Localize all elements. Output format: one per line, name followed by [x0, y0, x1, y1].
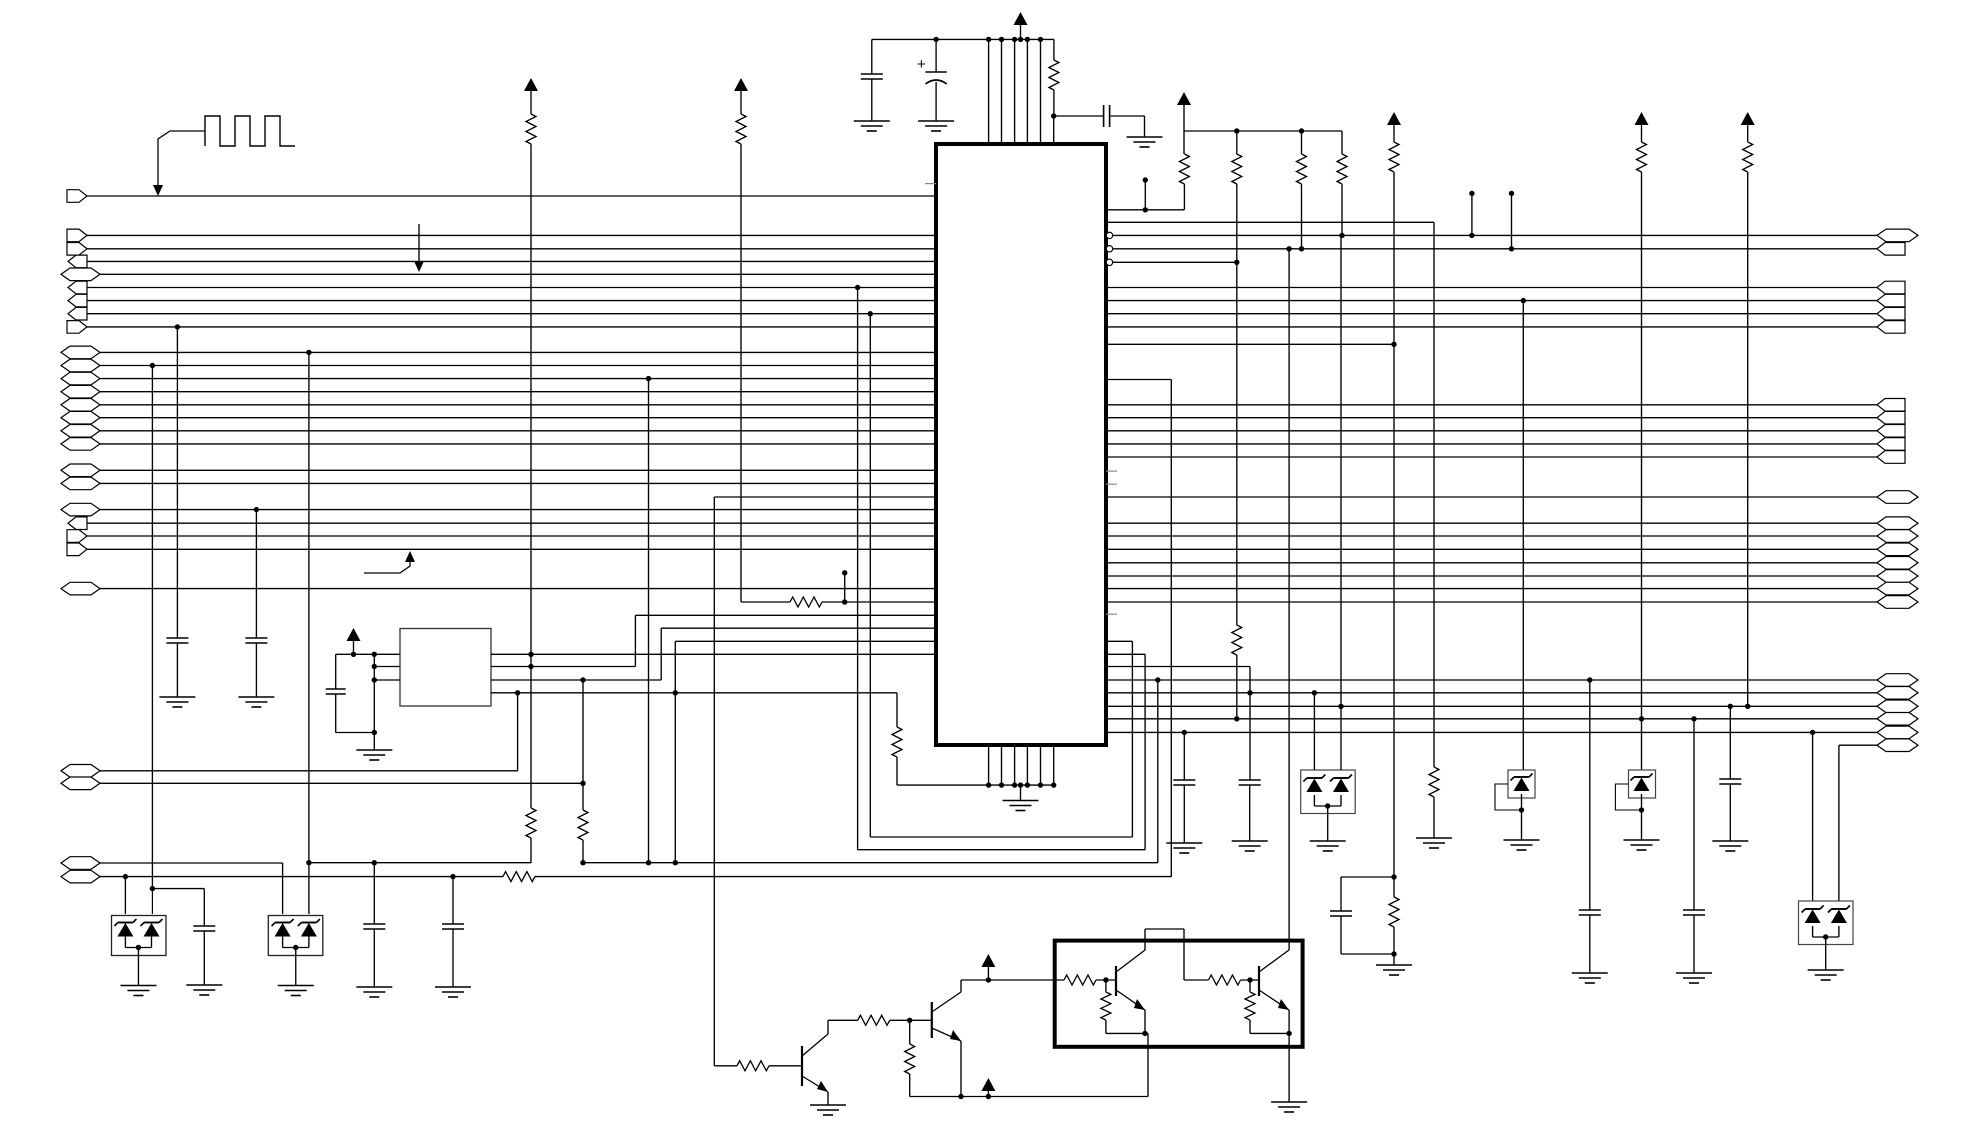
VCC power arrow top center: [1014, 12, 1028, 25]
wire row y470: [100, 469, 936, 471]
TVS diode array D2 bottom-left-2: [268, 916, 323, 956]
wire drop x517 to row 771: [517, 693, 519, 771]
RC pair x1341/x1394 lower: [1391, 874, 1396, 879]
connector P-CLK input: [67, 190, 87, 203]
wire U2 pin1 left VCC: [336, 653, 400, 655]
resistor Q1 collector to node: [858, 1015, 890, 1025]
transistor Q1: [801, 1046, 803, 1086]
ground x1250: [1232, 840, 1268, 842]
wire row 667 to corner x1250: [1106, 666, 1250, 668]
wire drop x1694 from row 719: [1691, 716, 1696, 721]
connector right hex 236: [1877, 229, 1918, 242]
capacitor x1694: [1683, 909, 1705, 911]
wire bus row y248: [87, 248, 936, 250]
resistor x1394: [1389, 142, 1399, 172]
wire row E 588: [100, 588, 936, 590]
ground D6: [1808, 969, 1844, 971]
wire U2 pin2 right with jog to IC row 615: [491, 666, 635, 668]
wire row y523: [87, 522, 936, 524]
connector left hex 863: [61, 857, 100, 870]
ground x1730: [1712, 840, 1748, 842]
wire rows 287-327 right side: [1106, 287, 1877, 289]
connectors right rows 404-457: [1877, 399, 1905, 412]
connectors right hex rows 680-745: [1877, 674, 1918, 687]
wire Q4 base feed: [1184, 979, 1209, 981]
wire rows 404-457 right side: [1106, 404, 1877, 406]
wire rows 523-602 right side: [1106, 522, 1877, 524]
net stub pair x1511: [1509, 191, 1514, 196]
connectors right hex rows 523-602: [1877, 517, 1918, 530]
capacitor at x256: [245, 637, 267, 639]
wire x1289 long vertical to transistor box: [1288, 249, 1290, 943]
connector left hex 771: [61, 765, 100, 778]
resistor Q4 base-emitter: [1247, 977, 1252, 982]
sub-IC U2 box: [400, 629, 491, 707]
connector left y300: [68, 294, 87, 307]
resistor pullup x531: [526, 114, 536, 144]
wire S2 row 863: [583, 862, 1158, 864]
capacitor U2 bypass: [335, 654, 337, 689]
wire long vertical x714 to transistor Q1: [713, 497, 715, 1066]
VCC rail right with arrow: [1177, 92, 1191, 105]
wire IC pin row 344 to x1394: [1106, 343, 1394, 345]
ground x1394: [1376, 964, 1412, 966]
TVS single D5 x1641: [1641, 719, 1643, 770]
wire x1314 up to row 693: [1312, 690, 1317, 695]
wire U-return from row 313 via bottom: [868, 311, 873, 316]
ground x177: [159, 696, 195, 698]
wire U-return from row 287 via bottom: [855, 285, 860, 290]
resistor Q3 base-emitter: [1103, 977, 1108, 982]
wire row G1 863: [100, 862, 283, 864]
wire bus row y261: [87, 260, 936, 262]
resistor x1434: [1429, 767, 1439, 797]
transistor Q3: [1115, 966, 1117, 996]
wire Q2 emitter rail: [960, 1041, 962, 1097]
wire IC pin row 379 U-turn to row 877: [1106, 379, 1171, 381]
wire Q3 emitter to node: [1144, 1010, 1146, 1033]
wire U2 pin3 left: [374, 679, 400, 681]
connector left y549: [67, 543, 87, 556]
wire drop x453 from row 877: [450, 874, 455, 879]
ground x204: [186, 984, 222, 986]
ground x1694: [1676, 972, 1712, 974]
wire Q3 collector bump over box top: [1144, 929, 1146, 950]
VCC arrow x531: [524, 78, 538, 91]
connector left y313: [68, 307, 87, 320]
connector left y536: [67, 530, 87, 543]
VCC arrow Q2 collector: [986, 977, 991, 982]
connector left y248: [67, 243, 87, 256]
net stub pair x1471: [1469, 191, 1474, 196]
ground x1434: [1416, 837, 1452, 839]
wire IC inverted pin row 235: [1106, 232, 1112, 238]
capacitor x1184 from row 732: [1182, 730, 1187, 735]
wire U2 pin2 left: [374, 666, 400, 668]
ground Q1: [810, 1104, 846, 1106]
ground x453: [435, 986, 471, 988]
ground x1589: [1572, 972, 1608, 974]
IC bottom pin wires: [988, 745, 990, 785]
ground Q4: [1271, 1101, 1307, 1103]
VCC arrow on emitter rail: [986, 1094, 991, 1099]
capacitor at x453: [442, 923, 464, 925]
VCC arrow x1641: [1635, 112, 1649, 125]
series capacitor C3 to ground: [1054, 115, 1104, 117]
wire row y549: [87, 548, 936, 550]
wire row y483: [100, 482, 936, 484]
ground D3: [1310, 840, 1346, 842]
net stub pair x1145: [1143, 177, 1148, 182]
resistor x897: [892, 727, 902, 757]
wire bus row y274: [100, 273, 936, 275]
wire Q4 collector exits box top: [1288, 943, 1290, 950]
connector left hex y430: [61, 425, 100, 438]
connector left hex y483: [61, 477, 100, 490]
connector right arrow 249: [1877, 243, 1905, 256]
resistor pullup x1342: [1341, 131, 1343, 154]
wire row 602 with series resistor: [741, 601, 790, 603]
wire drop x583 from row 680: [580, 677, 585, 682]
connector left hex 876: [61, 870, 100, 883]
capacitor at x204: [193, 925, 215, 927]
wire IC pin row 222 to resistor x1434: [1106, 221, 1434, 223]
svg-text:+: +: [917, 56, 926, 73]
wire Q2 collector to box: [960, 980, 962, 992]
resistor x1641: [1637, 142, 1647, 172]
wire data bus row y443: [100, 443, 936, 445]
net stub pair x844: [842, 570, 847, 575]
wire row F2 783: [100, 782, 583, 784]
ground U2: [356, 749, 392, 751]
connector left y235: [67, 229, 87, 242]
resistor pullup x741: [736, 114, 746, 144]
wire drop x648 from row 379: [646, 376, 651, 381]
connector right hex 497: [1877, 491, 1918, 504]
unconnected pin stubs: [925, 183, 936, 185]
TVS diode array D6 bottom right: [1810, 730, 1815, 735]
clock annotation arrow to CLK line: [158, 131, 205, 185]
connector left y261: [68, 255, 87, 268]
connector left hex y352: [61, 346, 100, 359]
VCC arrow for U2: [347, 628, 361, 641]
capacitor x1730 from row 706: [1728, 704, 1733, 709]
connector left hex y378: [61, 372, 100, 385]
wire x1236 vertical to resistor: [1236, 262, 1238, 625]
wire data bus row y417: [100, 417, 936, 419]
wire emitter rail corner up to box: [1147, 1033, 1149, 1096]
capacitor C2 electrolytic: [935, 39, 937, 72]
wire jog x675 to IC row 641: [674, 641, 676, 693]
resistor x1394 lower: [1393, 877, 1395, 897]
ground D5: [1624, 839, 1660, 841]
resistor pullup x1747: [1743, 142, 1753, 172]
wire corner G1 to TVS x282: [282, 863, 284, 914]
wire drop x308 from row 352: [306, 350, 311, 355]
resistor pullup x1236: [1236, 131, 1238, 154]
wire bus row y287: [87, 287, 936, 289]
connector left y509: [61, 503, 100, 516]
connector left hex y391: [61, 385, 100, 398]
wire drop x1157 row 680 to S2: [1155, 677, 1160, 682]
wire bottom pins join rail: [897, 784, 1054, 786]
wire bus row y313: [87, 313, 936, 315]
connector left hex 588: [61, 582, 100, 595]
resistor Q3 base: [1064, 975, 1096, 985]
wire data bus row y365: [100, 365, 936, 367]
VCC arrow x741: [734, 78, 748, 91]
wire row 745 from connector to TVS: [1839, 744, 1877, 746]
wire Q4 emitter to node: [1288, 1010, 1290, 1033]
wire IC pin row 210 to pullup: [1106, 209, 1184, 211]
capacitor C1 decoupling: [871, 39, 873, 74]
transistor array box Q3 Q4: [1055, 941, 1303, 1047]
resistor pullup x1301: [1301, 131, 1303, 154]
IC U1 main microcontroller: [936, 144, 1106, 745]
wire row 497 right: [1106, 496, 1877, 498]
wire bus row y300: [87, 300, 936, 302]
wire data bus row y404: [100, 404, 936, 406]
connector left hex y404: [61, 399, 100, 412]
connector left hex y443: [61, 438, 100, 451]
resistor x583: [578, 810, 588, 840]
wire drop x125 from row 877: [123, 874, 128, 879]
wire drop x1589 from row 680: [1587, 677, 1592, 682]
wire Q4 emitter to ground: [1288, 1033, 1290, 1102]
ground for C1: [854, 120, 890, 122]
resistor R-top on VDD pin: [1053, 39, 1055, 60]
wire row y509: [100, 509, 936, 511]
wire drop x152 from row 365: [150, 363, 155, 368]
wire row F1 771: [100, 770, 518, 772]
connector left y523: [68, 517, 87, 530]
resistor node pulldown: [909, 1020, 911, 1044]
IC top pin wires: [988, 39, 990, 144]
wire U2 pin3 right with jog to IC row 628: [491, 679, 661, 681]
wire data bus row y391: [100, 391, 936, 393]
resistor pullup x1184: [1183, 131, 1185, 154]
wire jog to cap x204: [152, 888, 204, 890]
VCC arrow x1747: [1741, 112, 1755, 125]
wire drop x177 from row 327: [175, 324, 180, 329]
wire x1341 vertical row 235 to TVS: [1338, 704, 1343, 709]
connector left hex y365: [61, 359, 100, 372]
capacitor x1250: [1249, 693, 1251, 780]
transistor Q2: [931, 1002, 933, 1038]
ground IC bottom: [1020, 785, 1022, 800]
power rail node: [872, 38, 1054, 40]
TVS single D4 with pullup x1523: [1522, 301, 1524, 770]
ground for C3: [1127, 136, 1163, 138]
connector left y287: [68, 281, 87, 294]
connector left hex y417: [61, 411, 100, 424]
annotation L-arrow pointing up to row 549: [364, 562, 410, 573]
ground D1 bottom-left: [120, 985, 156, 987]
ground x374: [356, 986, 392, 988]
wire IC inverted pin row 262: [1106, 259, 1112, 265]
connector left hex 783: [61, 777, 100, 790]
ground D2 bottom-left-2: [278, 985, 314, 987]
TVS diode array D3: [1301, 770, 1356, 814]
wire Q2 base: [910, 1019, 932, 1021]
resistor Q4 base: [1209, 975, 1241, 985]
clock waveform symbol: [205, 116, 295, 146]
transistor Q4: [1258, 966, 1260, 996]
resistor lower x531: [526, 808, 536, 838]
ground for C2: [918, 120, 954, 122]
wire data bus row y378: [100, 378, 936, 380]
wire CLK line: [87, 195, 936, 197]
wire U2 pin4 right row 693: [491, 692, 897, 694]
wire bus row y326: [87, 326, 936, 328]
TVS diode array D1 bottom-left: [112, 916, 167, 956]
ground D4: [1504, 839, 1540, 841]
wire Q1 base feed: [714, 1065, 737, 1067]
ground x256: [238, 696, 274, 698]
wire data bus row y352: [100, 351, 936, 353]
wire U2 pin1 right to IC row 654: [491, 653, 936, 655]
wire drop x256 from row 510: [254, 507, 259, 512]
capacitor at x177: [166, 637, 188, 639]
wire IC inverted pin row 249: [1106, 246, 1112, 252]
wire x897 through resistor to bottom rail: [896, 693, 898, 727]
connectors right rows 287-327: [1877, 281, 1905, 294]
wire Q1 emitter to ground: [827, 1092, 829, 1105]
capacitor x1589: [1579, 909, 1601, 911]
wire row y536: [87, 535, 936, 537]
wire U2 ground stem: [373, 654, 375, 750]
VCC arrow x1394: [1387, 112, 1401, 125]
capacitor at x374: [363, 923, 385, 925]
wire data bus row y430: [100, 430, 936, 432]
wire Q1 collector: [827, 1020, 829, 1034]
connector left y274: [61, 268, 100, 281]
ground x1184: [1166, 842, 1202, 844]
wire drop x374 from S1 row 863: [372, 860, 377, 865]
wire S1 segment row 863: [309, 862, 531, 864]
connector left y326: [67, 321, 87, 334]
connector left hex y470: [61, 464, 100, 477]
annotation arrow down at column 419: [418, 224, 420, 263]
wire bus row y235: [87, 234, 936, 236]
wire IC left row 497 from x714: [714, 496, 936, 498]
resistor x1236 lower: [1232, 625, 1242, 655]
wire rows 680-732 right side: [1106, 679, 1877, 681]
wire row G2 876 long rail with series resistor: [100, 876, 503, 878]
wire drop x152 to TVS: [151, 889, 153, 914]
